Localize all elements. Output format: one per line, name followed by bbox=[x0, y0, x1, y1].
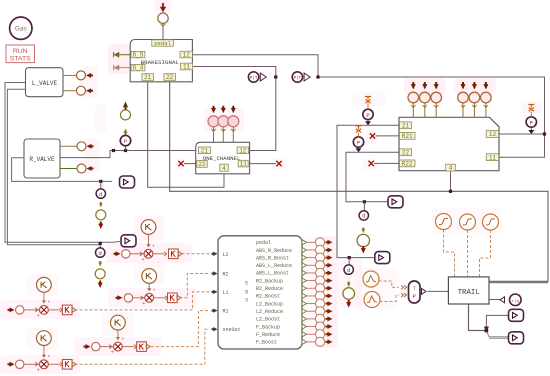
wire: TRAIL bottom to output boxes bbox=[469, 304, 487, 331]
svg-text:L1: L1 bbox=[223, 290, 229, 296]
svg-text:d: d bbox=[347, 267, 350, 274]
output box TRAIL upper bbox=[509, 309, 524, 321]
node: monitor junction on R_VALVE net bbox=[112, 149, 115, 152]
block TRAIL bbox=[448, 277, 489, 304]
scope circle left 2 bbox=[364, 292, 380, 308]
monitor output box row 2 (L_VALVE net) bbox=[121, 235, 136, 247]
wire: dashed scope feeds into TRAIL top bbox=[444, 230, 455, 277]
wire: thick branch to lower output box bbox=[486, 331, 509, 337]
arrow into L_VALVE out 2 bbox=[86, 88, 91, 93]
port R22 (main) bbox=[399, 160, 415, 167]
wire: main block port 21 feed with riser to monitor row bbox=[337, 125, 399, 257]
gain chain C: source arrow bbox=[9, 307, 14, 312]
output arrow ABS_L_Boost bbox=[327, 270, 332, 275]
wire: dashed gain C output to block input L1 bbox=[75, 292, 210, 310]
svg-text:P: P bbox=[366, 113, 369, 119]
block main ABS channel bbox=[399, 117, 499, 170]
supply circle 3 above ONE_CHANNEL bbox=[232, 127, 234, 143]
output arrow ABS_R_Boost bbox=[327, 255, 332, 260]
svg-text:*: * bbox=[152, 245, 155, 251]
svg-text:R2_Backup: R2_Backup bbox=[256, 278, 283, 284]
arrow into pedal source bbox=[162, 3, 164, 8]
svg-text:d: d bbox=[99, 250, 102, 257]
input arrow oneOut bbox=[213, 327, 217, 331]
svg-text:ONE_CHANNEL: ONE_CHANNEL bbox=[203, 155, 241, 162]
node: junction port 4 on long net bbox=[449, 190, 452, 193]
svg-text:4: 4 bbox=[222, 165, 226, 172]
svg-text:12: 12 bbox=[183, 52, 191, 59]
scope circle 3 above TRAIL bbox=[483, 214, 499, 230]
arrow into main supply circle 5 bbox=[472, 84, 477, 89]
output arrow R2_Backup bbox=[327, 278, 332, 283]
gain chain D: multiplier bbox=[100, 346, 114, 348]
gain chain C: K box bbox=[48, 309, 60, 311]
gain chain D: pot circle bbox=[111, 315, 126, 330]
gain chain D: K box bbox=[122, 346, 134, 348]
output port R2_Reduce bbox=[302, 286, 307, 291]
output port F_Reduce bbox=[302, 332, 307, 337]
input arrow R2 bbox=[213, 271, 217, 275]
svg-text:L2: L2 bbox=[223, 252, 229, 258]
svg-text:21: 21 bbox=[144, 74, 152, 81]
wire: P|T tap net across top to main block port 11 bbox=[318, 77, 545, 157]
svg-text:L_VALVE: L_VALVE bbox=[32, 80, 58, 87]
gain chain D: input circle bbox=[92, 342, 100, 350]
block RUN STATS bbox=[6, 45, 35, 63]
output arrow R2_Boost bbox=[327, 293, 332, 298]
svg-text:R21: R21 bbox=[402, 133, 413, 140]
arrow into main supply circle 1 bbox=[411, 84, 416, 89]
gain chain B: K box bbox=[154, 297, 166, 299]
wire: BRAKESIGNAL port 12 to right-edge riser bbox=[192, 55, 318, 77]
block ONE_CHANNEL bbox=[196, 142, 250, 174]
port 21 (main) bbox=[400, 122, 412, 129]
svg-text:L2_Boost: L2_Boost bbox=[256, 317, 280, 323]
cut mark right of port 11 bbox=[276, 161, 281, 166]
port circle R_VALVE out 1 bbox=[60, 145, 77, 147]
gain chain B: input circle bbox=[124, 294, 132, 302]
input arrow R1 bbox=[213, 308, 217, 312]
delay d row 2 bbox=[99, 245, 101, 248]
gain chain B: source arrow bbox=[117, 295, 122, 300]
output arrow L2_Reduce bbox=[327, 309, 332, 314]
gain chain E: source arrow bbox=[9, 362, 14, 367]
scope circle left 1 bbox=[363, 271, 379, 287]
svg-text:P: P bbox=[357, 140, 360, 146]
svg-text:P: P bbox=[530, 120, 533, 126]
gain chain C: input circle bbox=[16, 306, 24, 314]
transducer TP bbox=[409, 281, 421, 303]
svg-text:ABS_L_Boost: ABS_L_Boost bbox=[256, 271, 289, 277]
wire: L_VALVE left port 2 to lower-left bus bbox=[7, 89, 100, 244]
orifice icon above P3 bbox=[528, 105, 534, 112]
svg-text:+: + bbox=[142, 301, 145, 307]
node: junction main block 22 riser monitor bbox=[363, 200, 366, 203]
output port ABS_L_Boost bbox=[302, 270, 307, 275]
output port ABS_R_Reduce bbox=[302, 247, 307, 252]
svg-text:TRAIL: TRAIL bbox=[458, 289, 480, 297]
output port F_Boost bbox=[302, 339, 307, 344]
output arrow L2_Backup bbox=[327, 301, 332, 306]
cut mark at R22 bbox=[369, 161, 374, 166]
delay d (main 21 riser) bbox=[348, 258, 350, 265]
output arrow ABS_L_Reduce bbox=[327, 263, 332, 268]
supply circle 2 above ONE_CHANNEL bbox=[222, 127, 224, 143]
gain chain E: input circle bbox=[16, 360, 24, 368]
arrow into main supply circle 3 bbox=[434, 84, 439, 89]
supply circle 1 above ONE_CHANNEL bbox=[213, 127, 215, 143]
svg-text:11: 11 bbox=[240, 161, 248, 168]
svg-text:R2_Reduce: R2_Reduce bbox=[256, 286, 283, 292]
wire: BRAKESIGNAL port 11 down to ONE_CHANNEL port 12 bbox=[192, 67, 275, 151]
svg-text:BRAKESIGNAL: BRAKESIGNAL bbox=[141, 59, 180, 66]
node: monitor junction lower-left row 1 bbox=[99, 180, 102, 183]
svg-text:d: d bbox=[99, 191, 102, 198]
arrow into R_VALVE out 2 bbox=[87, 166, 92, 171]
gain chain B: pot circle bbox=[142, 269, 157, 284]
output arrow F_Backup bbox=[327, 324, 332, 329]
svg-text:R2: R2 bbox=[223, 272, 229, 278]
node: junction main block 21 riser monitor bbox=[348, 256, 351, 259]
svg-text:P|T: P|T bbox=[250, 76, 258, 81]
block EBS controller bbox=[218, 236, 302, 349]
output arrow L2_Boost bbox=[327, 316, 332, 321]
wire: BRAKESIGNAL port 22 long net to TRAIL right side bbox=[170, 82, 548, 281]
sensor P|T 2 bbox=[292, 72, 302, 82]
svg-text:6_5: 6_5 bbox=[133, 52, 144, 59]
source circle above pedal bbox=[158, 13, 168, 23]
output arrow pedal bbox=[327, 240, 332, 245]
svg-text:R1: R1 bbox=[223, 309, 229, 315]
output port F_Backup bbox=[302, 324, 307, 329]
output port R2_Boost bbox=[302, 293, 307, 298]
wire: main block port 4 drop to long net bbox=[450, 171, 452, 192]
port 11 (BRAKESIGNAL) bbox=[181, 63, 193, 70]
output arrow F_Boost bbox=[327, 339, 332, 344]
wire: dashed gain E output to block input oneOut bbox=[75, 329, 210, 364]
port 21 (ONE_CHANNEL) bbox=[198, 147, 210, 154]
port 12 (main) bbox=[486, 131, 499, 138]
svg-text:pedal: pedal bbox=[154, 40, 171, 47]
svg-text:oneOut: oneOut bbox=[223, 327, 241, 333]
gain chain A: pot circle bbox=[141, 220, 156, 235]
svg-text:R22: R22 bbox=[402, 161, 413, 168]
supply circle 5 above main block bbox=[473, 103, 475, 118]
svg-text:*: * bbox=[47, 355, 50, 361]
svg-text:B: B bbox=[245, 290, 248, 296]
gain chain A: K box bbox=[153, 253, 164, 255]
svg-text:P: P bbox=[413, 294, 416, 300]
orifice icon above P2 bbox=[356, 126, 362, 133]
recorder r|q bbox=[500, 297, 505, 303]
gain chain E: pot circle bbox=[37, 331, 52, 346]
supply circle 6 above main block bbox=[485, 103, 487, 118]
tag arrow into 6_4 bbox=[119, 67, 130, 69]
cut mark at R21 bbox=[370, 133, 375, 138]
svg-text:*: * bbox=[47, 301, 50, 307]
gain chain C: multiplier bbox=[24, 309, 40, 311]
port 6_4 bbox=[131, 64, 145, 70]
svg-text:*: * bbox=[153, 289, 156, 295]
node: right edge port-12 junction bbox=[543, 132, 546, 135]
output arrow R2_Reduce bbox=[327, 286, 332, 291]
wire: dashed left scopes into TP transducer bbox=[379, 281, 400, 287]
svg-text:11: 11 bbox=[489, 154, 497, 161]
gain chain D: source arrow bbox=[85, 344, 90, 349]
wire: main block port R21 stub from cut mark bbox=[376, 135, 400, 137]
arrow into main supply circle 6 bbox=[483, 84, 488, 89]
wire: pedal source stem bbox=[162, 23, 164, 40]
port R21 (main) bbox=[399, 133, 415, 140]
gain chain E: multiplier bbox=[24, 363, 40, 365]
wire: TRAIL right thick segment bbox=[489, 282, 548, 284]
svg-text:pedal: pedal bbox=[256, 240, 271, 246]
tag arrow into 6_5 bbox=[119, 54, 130, 56]
sensor P2 on port 22 net bbox=[358, 147, 360, 150]
supply circle 2 above main block bbox=[424, 103, 426, 118]
arrow into main supply circle 2 bbox=[422, 84, 427, 89]
vent arrow to atmosphere bbox=[123, 102, 128, 108]
output port pedal bbox=[302, 240, 307, 245]
port 22 (BRAKESIGNAL) bbox=[164, 74, 176, 81]
svg-text:R_VALVE: R_VALVE bbox=[29, 156, 55, 163]
wire: TP transducer output into TRAIL bbox=[428, 290, 449, 292]
monitor output box row 1 (R_VALVE net) bbox=[120, 176, 135, 188]
port 4 (ONE_CHANNEL) bbox=[220, 164, 228, 171]
arrow into L_VALVE out 1 bbox=[86, 73, 91, 78]
wire: branch up to upper output box bbox=[486, 315, 509, 330]
source Gas bbox=[10, 17, 32, 39]
svg-text:F_Boost: F_Boost bbox=[256, 340, 277, 346]
wire: ONE_CHANNEL port 22 stub from cut mark bbox=[184, 163, 196, 165]
block L_VALVE bbox=[26, 68, 64, 97]
svg-text:21: 21 bbox=[402, 122, 410, 129]
sensor P3 on port 12 net bbox=[530, 127, 532, 132]
sink below d (main 21) bbox=[347, 283, 351, 287]
wire: BRAKESIGNAL port 21 down to ONE_CHANNEL port 4 bbox=[148, 82, 224, 188]
port 12 (BRAKESIGNAL) bbox=[180, 51, 192, 58]
port 12 (ONE_CHANNEL) bbox=[237, 147, 249, 154]
wire: dashed gain D output to block input R1 bbox=[151, 311, 210, 347]
supply circle 1 above main block bbox=[412, 103, 414, 118]
output port L2_Reduce bbox=[302, 309, 307, 314]
wire: L_VALVE left port 1 to lower-left bus bbox=[5, 83, 114, 243]
svg-text:F_Reduce: F_Reduce bbox=[256, 332, 280, 338]
port circle L_VALVE out 1 bbox=[63, 74, 77, 76]
output port L2_Boost bbox=[302, 316, 307, 321]
output port L2_Backup bbox=[302, 301, 307, 306]
svg-text:22: 22 bbox=[166, 74, 174, 81]
wire: TRAIL right port to r|q recorder bbox=[489, 299, 501, 301]
svg-text:E: E bbox=[245, 281, 248, 287]
cut mark left of port 22 bbox=[178, 161, 183, 166]
wire: dashed gain B output to block input R2 bbox=[180, 274, 210, 298]
gain chain A: input circle bbox=[122, 250, 130, 258]
port 22 (main) bbox=[400, 149, 412, 156]
sink below d row 1 bbox=[99, 204, 103, 208]
gain chain A: source arrow bbox=[115, 251, 120, 256]
svg-text:RUN: RUN bbox=[13, 48, 28, 55]
input arrow L2 bbox=[213, 252, 217, 256]
sink below d row 2 bbox=[98, 263, 102, 267]
port 6_5 bbox=[131, 51, 145, 57]
svg-text:d: d bbox=[362, 213, 365, 220]
port 11 (main) bbox=[486, 154, 499, 161]
output port ABS_R_Boost bbox=[302, 255, 307, 260]
arrow into supply circle 1 bbox=[211, 108, 216, 113]
arrow into main supply circle 4 bbox=[461, 84, 466, 89]
delay d row 1 bbox=[100, 181, 102, 189]
node: P|T tap 2 junction bbox=[316, 75, 319, 78]
gain chain C: pot circle bbox=[37, 277, 52, 292]
svg-text:11: 11 bbox=[183, 64, 191, 71]
port circle R_VALVE out 2 (green feed) bbox=[60, 168, 77, 170]
output box TRAIL lower bbox=[509, 332, 524, 344]
svg-text:r|q: r|q bbox=[512, 299, 520, 304]
junction arrowheads into TP bbox=[401, 285, 403, 289]
node: monitor junction lower-left row 2 bbox=[99, 242, 102, 245]
supply circle 3 above main block bbox=[435, 103, 437, 118]
svg-text:S: S bbox=[245, 298, 248, 304]
svg-text:P|T: P|T bbox=[294, 76, 302, 81]
svg-text:4: 4 bbox=[449, 165, 453, 172]
svg-text:Gas: Gas bbox=[15, 26, 28, 33]
arrow into supply circle 3 bbox=[231, 108, 236, 113]
svg-text:22: 22 bbox=[198, 161, 206, 168]
svg-text:22: 22 bbox=[402, 149, 410, 156]
svg-text:+: + bbox=[111, 350, 114, 356]
block BRAKESIGNAL bbox=[130, 40, 192, 82]
port 22 (ONE_CHANNEL) bbox=[197, 161, 208, 168]
sensor P on R_VALVE net bbox=[125, 145, 127, 150]
gain chain E: K box bbox=[48, 363, 60, 365]
node: junction TRAIL bottom branch bbox=[485, 329, 489, 333]
svg-text:6_4: 6_4 bbox=[133, 65, 144, 72]
wire: dashed gain A output to block input L2 bbox=[182, 253, 210, 255]
svg-text:12: 12 bbox=[489, 131, 497, 138]
wire: main block port R22 stub from cut mark bbox=[374, 162, 399, 164]
output arrow F_Reduce bbox=[327, 332, 332, 337]
port circle L_VALVE out 2 bbox=[63, 90, 77, 92]
svg-text:L2_Backup: L2_Backup bbox=[256, 301, 283, 307]
port 21 (BRAKESIGNAL) bbox=[142, 74, 154, 81]
svg-text:+: + bbox=[37, 367, 40, 373]
block R_VALVE bbox=[24, 139, 60, 178]
vent circle above P sensor bbox=[124, 129, 128, 133]
sensor P|T 1 bbox=[248, 72, 258, 82]
svg-text:*: * bbox=[121, 337, 124, 343]
port 4 (main) bbox=[446, 164, 456, 171]
sensor P1 on port 21 net bbox=[367, 119, 369, 123]
node: P|T tap 1 junction bbox=[274, 75, 277, 78]
svg-text:STATS: STATS bbox=[10, 56, 31, 63]
wire: R_VALVE right port to ONE_CHANNEL port 21 bbox=[60, 151, 196, 158]
svg-text:+: + bbox=[37, 313, 40, 319]
wire: ONE_CHANNEL port 11 stub to cut mark bbox=[250, 163, 276, 165]
arrow into R_VALVE out 1 bbox=[87, 144, 92, 149]
scope circle 1 above TRAIL bbox=[436, 214, 452, 230]
svg-text:ABS_R_Boost: ABS_R_Boost bbox=[256, 255, 289, 261]
svg-text:+: + bbox=[141, 257, 144, 263]
port 11 (ONE_CHANNEL) bbox=[238, 160, 248, 167]
output arrow ABS_R_Reduce bbox=[327, 247, 332, 252]
monitor output box (main 22 riser) bbox=[388, 196, 403, 208]
svg-text:P: P bbox=[124, 139, 127, 145]
svg-text:ABS_L_Reduce: ABS_L_Reduce bbox=[256, 263, 292, 269]
output port R2_Backup bbox=[302, 278, 307, 283]
gain chain A: multiplier bbox=[130, 253, 144, 255]
wire: main block port 12 to right junction bbox=[499, 133, 545, 135]
svg-text:12: 12 bbox=[239, 147, 247, 154]
port pedal bbox=[152, 40, 174, 46]
arrow into supply circle 2 bbox=[221, 108, 226, 113]
scope circle 2 above TRAIL bbox=[460, 214, 476, 230]
svg-text:R2_Boost: R2_Boost bbox=[256, 294, 280, 300]
gain chain B: multiplier bbox=[133, 297, 145, 299]
wire: main block port 22 feed with riser to monitor row bbox=[346, 152, 399, 202]
svg-text:F_Backup: F_Backup bbox=[256, 324, 280, 330]
sink below d (main 22) bbox=[362, 229, 366, 233]
input arrow L1 bbox=[213, 290, 217, 294]
supply circle 4 above main block bbox=[462, 103, 464, 118]
wire: R_VALVE left port down to monitor row bbox=[12, 158, 112, 182]
svg-text:21: 21 bbox=[201, 147, 209, 154]
delay d (main 22 riser) bbox=[363, 202, 365, 211]
svg-text:L2_Reduce: L2_Reduce bbox=[256, 309, 283, 315]
orifice icon above P1 bbox=[365, 97, 371, 104]
svg-text:ABS_R_Reduce: ABS_R_Reduce bbox=[256, 248, 292, 254]
monitor output box (main 21 riser) bbox=[375, 252, 390, 264]
output port ABS_L_Reduce bbox=[302, 263, 307, 268]
